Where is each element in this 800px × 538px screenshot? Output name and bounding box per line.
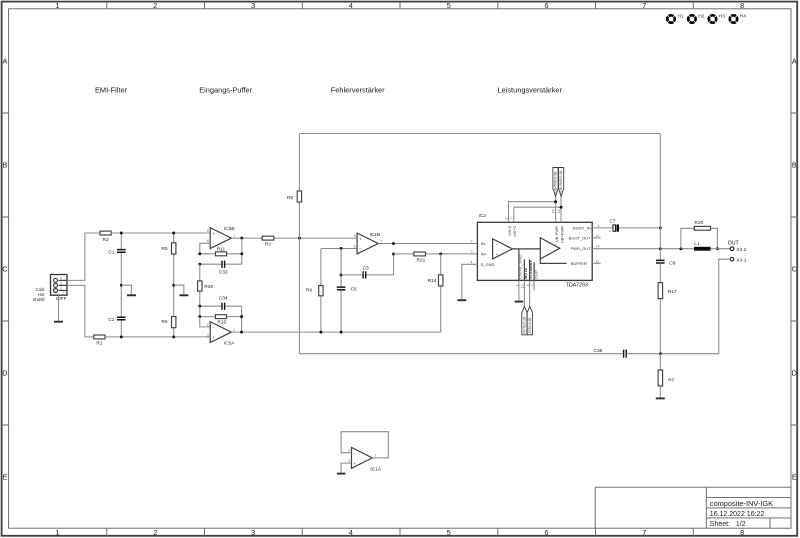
- svg-text:R14: R14: [428, 278, 437, 284]
- svg-text:R5: R5: [161, 246, 167, 252]
- svg-text:B: B: [3, 161, 8, 170]
- svg-text:A: A: [3, 57, 8, 66]
- svg-text:6: 6: [354, 245, 356, 249]
- svg-text:3: 3: [251, 528, 255, 537]
- wire: IC2 pin 9 STANDBY to label: [529, 280, 531, 306]
- svg-text:composite-INV-IGK: composite-INV-IGK: [710, 499, 773, 508]
- node: R11 left junction: [198, 252, 201, 255]
- svg-text:12: 12: [596, 234, 600, 238]
- node: C1/C2 midpoint junction: [120, 284, 123, 287]
- svg-text:5: 5: [447, 1, 451, 10]
- capacitor C34 (feedback IC5A): [200, 296, 242, 310]
- svg-text:7: 7: [642, 1, 646, 10]
- wire: X3-1 return down to C36 row: [660, 259, 730, 354]
- node: right rail C7 junction: [659, 226, 662, 229]
- svg-text:E: E: [3, 473, 8, 482]
- svg-text:14: 14: [596, 245, 600, 249]
- ground (EMI mid node 2): [174, 285, 189, 295]
- resistor R14: [428, 254, 443, 332]
- resistor R1: [94, 335, 105, 347]
- svg-text:5: 5: [207, 229, 209, 233]
- wire: IC2 BOOT_IN pin 6 to C7: [592, 227, 613, 229]
- wire: IC2 pin 8 to -UB power net: [509, 202, 556, 223]
- node: inverting input column junction: [340, 247, 343, 250]
- op-amp IC5A: [207, 322, 236, 347]
- IC U2: power amplifier TDA7293 (IC2): [471, 210, 600, 289]
- svg-text:UB+S: UB+S: [512, 226, 517, 237]
- wire: bottom rail R1 to IC5A+: [105, 336, 210, 338]
- wire: IC2 S_GND pin 4 to ground: [462, 264, 478, 299]
- capacitor C36 (loop): [594, 348, 661, 358]
- svg-text:C5: C5: [351, 287, 357, 293]
- svg-text:11: 11: [596, 259, 600, 263]
- svg-text:X3-2: X3-2: [736, 247, 746, 253]
- wire: IC5A output rail to R14 column: [231, 331, 440, 333]
- resistor R3: [262, 236, 274, 247]
- node: top rail R5 junction: [172, 232, 175, 235]
- power label -UB-PWR (top left pentagon): [553, 168, 558, 197]
- svg-text:+: +: [496, 252, 499, 257]
- node: R15 right junction: [240, 315, 243, 318]
- capacitor C7 (polarized, bootstrap): [609, 218, 619, 233]
- wire: R7 to ground: [659, 386, 661, 398]
- node: C5 bottom rail junction: [340, 331, 343, 334]
- node: bottom rail R6 junction: [172, 335, 175, 338]
- svg-text:+: +: [353, 461, 356, 466]
- svg-text:CNTRL_GND: CNTRL_GND: [517, 254, 522, 279]
- svg-text:H3: H3: [719, 13, 725, 18]
- op-amp IC5B: [207, 226, 236, 249]
- wire: IC2 BOOT_OUT pin 12 stub: [592, 237, 600, 239]
- svg-text:Leistungsverstärker: Leistungsverstärker: [498, 85, 563, 94]
- svg-text:8: 8: [740, 528, 744, 537]
- resistor R11 (feedback): [200, 246, 242, 255]
- ground (IC1A input): [337, 473, 346, 475]
- svg-text:3: 3: [207, 333, 209, 337]
- svg-text:6: 6: [207, 239, 209, 243]
- node: R21 left junction: [392, 252, 395, 255]
- svg-text:R7: R7: [668, 377, 674, 383]
- svg-text:3: 3: [251, 1, 255, 10]
- svg-text:13: 13: [557, 210, 561, 214]
- svg-text:BOOT_IN: BOOT_IN: [573, 225, 591, 230]
- node: R20 branch left junction: [679, 247, 682, 250]
- svg-text:BOOT_OUT: BOOT_OUT: [569, 236, 592, 241]
- svg-text:B: B: [792, 161, 797, 170]
- node: R3/R8 loop junction: [298, 237, 301, 240]
- svg-text:DIFF: DIFF: [56, 296, 67, 302]
- svg-text:2: 2: [153, 1, 157, 10]
- ground (R7): [656, 397, 665, 399]
- svg-text:6: 6: [598, 224, 600, 228]
- node: output junction to R21 row: [392, 242, 395, 245]
- resistor R17: [658, 283, 677, 299]
- ground (below DIFF connector): [54, 295, 63, 322]
- svg-text:4: 4: [349, 1, 353, 10]
- internal pin stubs bottom: [519, 249, 534, 280]
- power label +UB-PWR (top right pentagon): [559, 168, 564, 197]
- TITLE BLOCK: [595, 487, 791, 528]
- svg-text:UB-PWR: UB-PWR: [554, 226, 559, 242]
- svg-text:2: 2: [471, 240, 473, 244]
- svg-text:C: C: [2, 265, 7, 274]
- wire: global feedback loop top edge: [299, 133, 660, 135]
- wire: R20 branch (up and over): [681, 228, 718, 248]
- svg-text:7: 7: [380, 239, 382, 243]
- svg-text:5: 5: [447, 528, 451, 537]
- capacitor C5: [337, 249, 357, 333]
- svg-text:TDA7293: TDA7293: [566, 283, 588, 289]
- wire: C8 to R17: [659, 263, 661, 282]
- svg-text:7: 7: [642, 528, 646, 537]
- svg-text:16.12.2022 16:22: 16.12.2022 16:22: [710, 511, 765, 518]
- wire: L1 to X3-2 terminal: [711, 248, 731, 250]
- node: R5/R6 midpoint junction: [172, 284, 175, 287]
- svg-text:2: 2: [348, 449, 350, 453]
- capacitor C33 (feedback): [200, 261, 242, 276]
- wire: R9 top to IC1B inverting input: [321, 248, 357, 250]
- wire: R3 to IC1B non-inverting input: [274, 237, 357, 239]
- svg-text:3: 3: [348, 459, 350, 463]
- wire: IC2 PWR_OUT pin 14 to L1: [592, 248, 694, 250]
- internal link op-amp to power stage: [512, 248, 540, 250]
- svg-text:Eingangs-Puffer: Eingangs-Puffer: [199, 85, 252, 94]
- wire: IC5B inverting input to R26 column: [200, 243, 210, 254]
- svg-text:H1: H1: [678, 13, 684, 18]
- wire: IC2 pin 15 column to power label: [555, 196, 557, 222]
- svg-text:IC1B: IC1B: [369, 232, 380, 238]
- node: R15 left junction: [198, 315, 201, 318]
- svg-text:1: 1: [233, 328, 235, 332]
- svg-text:R15: R15: [217, 320, 226, 326]
- wire: IC1A feedback loop output to inverting input: [341, 432, 388, 458]
- svg-text:PWR_OUT: PWR_OUT: [571, 246, 592, 251]
- node: right rail PWR_OUT junction: [659, 247, 662, 250]
- svg-text:C8: C8: [669, 261, 675, 267]
- resistor R21: [394, 252, 478, 264]
- resistor R6: [161, 285, 176, 337]
- svg-text:C2: C2: [108, 317, 114, 323]
- svg-text:1: 1: [56, 1, 60, 10]
- resistor R2: [100, 231, 111, 243]
- wire: R17 down to C36 node: [659, 299, 661, 354]
- svg-text:BUFFER: BUFFER: [571, 261, 587, 266]
- svg-text:C: C: [792, 265, 797, 274]
- svg-text:IC1A: IC1A: [370, 466, 381, 472]
- svg-text:E: E: [792, 473, 797, 482]
- svg-text:H2: H2: [698, 13, 704, 18]
- mounting hole H2: [688, 13, 705, 22]
- svg-text:R6: R6: [161, 319, 167, 325]
- svg-text:R8: R8: [287, 195, 293, 201]
- capacitor C8: [656, 260, 676, 266]
- svg-text:R20: R20: [695, 220, 704, 226]
- wire: IC1A non-inverting input to ground: [341, 463, 351, 473]
- resistor R20: [694, 220, 710, 230]
- svg-text:+: +: [359, 236, 362, 241]
- svg-text:3: 3: [471, 250, 473, 254]
- svg-text:IN-: IN-: [481, 241, 487, 246]
- svg-text:A: A: [792, 57, 797, 66]
- svg-text:+: +: [212, 231, 215, 236]
- node: C33 left junction: [198, 263, 201, 266]
- svg-text:OUT: OUT: [728, 241, 740, 247]
- wire: IC2 BUFFER pin 11 stub: [592, 262, 600, 264]
- svg-text:MUTE: MUTE: [523, 267, 528, 279]
- internal buffer pin polyline: [540, 259, 566, 264]
- op-amp IC1A (unused half, follower): [348, 448, 382, 473]
- node: C3 row junction on inverting column: [340, 273, 343, 276]
- op-amp IC1B: [354, 232, 383, 254]
- svg-text:EMI-Filter: EMI-Filter: [95, 85, 128, 94]
- svg-text:5: 5: [354, 234, 356, 238]
- svg-text:shield: shield: [33, 297, 45, 302]
- ground (IC2 CNTRL_GND): [515, 301, 524, 303]
- resistor R5: [161, 233, 176, 285]
- wire: IC2 pin 1 CNTRL_GND to ground: [518, 280, 520, 300]
- svg-text:2: 2: [60, 282, 62, 286]
- svg-text:UB+PWR: UB+PWR: [559, 226, 564, 243]
- capacitor C1: [108, 233, 125, 285]
- node: IC5B output junction: [240, 237, 243, 240]
- node: bottom rail C2 junction: [120, 335, 123, 338]
- node: R9 bottom rail junction: [319, 331, 322, 334]
- wire: feedback column IC5B (output down to R11/C33): [241, 238, 243, 264]
- terminal X3-2: [730, 247, 747, 253]
- wire: IC1B output to IC2 IN-: [378, 243, 477, 245]
- svg-text:L1: L1: [694, 241, 700, 247]
- wire: global feedback loop left edge: [298, 134, 300, 354]
- svg-text:C33: C33: [219, 270, 228, 276]
- svg-text:IC2: IC2: [479, 213, 487, 219]
- svg-text:7: 7: [233, 234, 235, 238]
- wire: IC2 pin 10 MUTE to label: [523, 280, 525, 306]
- svg-text:C7: C7: [609, 218, 615, 224]
- wire: IC2 pin 13 column to power label: [560, 196, 562, 222]
- node: L1/R20 right junction: [716, 247, 719, 250]
- svg-text:STBY/2-2B: STBY/2-2B: [528, 318, 532, 334]
- svg-text:8: 8: [504, 218, 508, 220]
- wire: feedback column IC5A: [241, 306, 243, 332]
- wire: R26 column down to IC5A inverting input: [200, 317, 210, 327]
- svg-text:8: 8: [740, 1, 744, 10]
- svg-text:1: 1: [56, 528, 60, 537]
- svg-text:3: 3: [60, 277, 62, 281]
- svg-text:R26: R26: [204, 284, 213, 290]
- svg-text:R1: R1: [96, 341, 102, 347]
- power stage triangle inside IC2: [540, 238, 559, 259]
- capacitor C3: [341, 254, 393, 279]
- svg-text:R21: R21: [416, 258, 425, 264]
- svg-text:R11: R11: [217, 246, 226, 252]
- svg-text:Fehlerverstärker: Fehlerverstärker: [331, 85, 385, 94]
- resistor R26 (divider column): [198, 264, 214, 306]
- svg-text:C36: C36: [594, 348, 603, 354]
- node: pin7/pin13 net junction: [560, 206, 563, 209]
- svg-text:7: 7: [510, 218, 514, 220]
- svg-text:IN+: IN+: [481, 251, 488, 256]
- svg-text:+UB-PWR/2-1B: +UB-PWR/2-1B: [559, 171, 563, 193]
- node: R14 top junction: [439, 252, 442, 255]
- svg-text:UB-S: UB-S: [507, 226, 512, 236]
- svg-text:Sheet: 1/2: Sheet: 1/2: [710, 521, 746, 528]
- svg-text:6: 6: [545, 528, 549, 537]
- node: C36/R7 junction: [659, 352, 662, 355]
- net label MUTE (bottom left pentagon): [522, 306, 527, 334]
- svg-text:S_GND: S_GND: [481, 262, 495, 267]
- wire: DIFF pin3 up to R2 rail: [67, 233, 100, 280]
- node: C34 left junction: [198, 305, 201, 308]
- wire: right rail top segment (loop top to C8): [659, 134, 661, 261]
- node: IC5A output feedback junction: [240, 331, 243, 334]
- svg-text:C3: C3: [363, 266, 369, 272]
- op-amp (input stage) inside IC2: [493, 239, 513, 259]
- wire: DIFF pin2 down to R1 rail: [67, 285, 94, 337]
- svg-text:6: 6: [545, 1, 549, 10]
- svg-text:1: 1: [374, 454, 376, 458]
- svg-text:4: 4: [349, 528, 353, 537]
- svg-text:X3-1: X3-1: [736, 257, 746, 263]
- svg-text:15: 15: [551, 210, 555, 214]
- ground (IC2 S_GND): [457, 299, 466, 301]
- mounting hole H3: [709, 13, 726, 22]
- svg-text:R9: R9: [306, 287, 312, 293]
- svg-text:R2: R2: [103, 237, 109, 243]
- svg-text:2: 2: [207, 323, 209, 327]
- resistor R15 (feedback): [200, 306, 242, 325]
- svg-text:D: D: [2, 369, 7, 378]
- svg-text:-UB-PWR/2-3B: -UB-PWR/2-3B: [554, 172, 558, 194]
- resistor R9: [306, 249, 323, 333]
- node: top rail C1 junction: [120, 232, 123, 235]
- svg-text:IC5A: IC5A: [224, 340, 235, 346]
- wire: IC2 pin 5 CLIP stub: [533, 280, 535, 290]
- node: R11 right junction: [240, 252, 243, 255]
- ground (EMI mid node 1): [121, 285, 136, 295]
- wire: C7 to right rail: [619, 227, 660, 229]
- svg-text:C1: C1: [108, 249, 114, 255]
- svg-text:H4: H4: [740, 13, 746, 18]
- wire: IC2 pin 7 to +UB power net: [514, 207, 561, 222]
- svg-text:1: 1: [60, 287, 62, 291]
- svg-text:R17: R17: [668, 289, 677, 295]
- svg-text:4: 4: [471, 260, 473, 264]
- resistor R8 (loop): [287, 191, 302, 202]
- svg-text:IC5B: IC5B: [224, 226, 235, 232]
- svg-text:R3: R3: [265, 241, 271, 247]
- mounting hole H4: [730, 13, 747, 22]
- resistor R7: [658, 354, 675, 386]
- wire: loop bottom edge to C36: [299, 353, 623, 355]
- svg-text:C34: C34: [219, 296, 228, 302]
- svg-text:2: 2: [153, 528, 157, 537]
- wire: top rail R2 to IC5B+: [111, 232, 210, 234]
- svg-text:+: +: [212, 335, 215, 340]
- terminal X3-1: [730, 257, 747, 263]
- mounting hole H1: [667, 13, 684, 22]
- connector DIFF (input): [33, 275, 67, 303]
- svg-text:MUTE/2-2B: MUTE/2-2B: [523, 317, 527, 334]
- capacitor C2: [108, 285, 125, 337]
- net label STANDBY (bottom right pentagon): [527, 306, 532, 334]
- wire: IC5B output to R3: [231, 237, 262, 239]
- inductor L1: [694, 241, 711, 251]
- node: pin8/pin15 net junction: [554, 200, 557, 203]
- svg-text:D: D: [792, 369, 797, 378]
